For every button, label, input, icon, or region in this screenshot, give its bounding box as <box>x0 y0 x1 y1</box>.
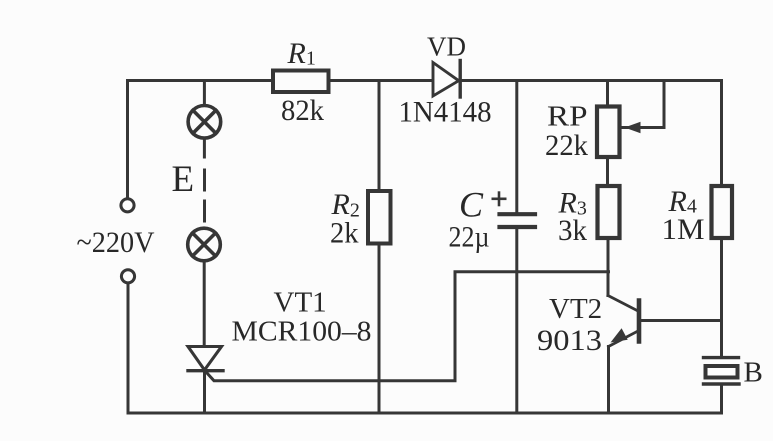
wire left rail upper <box>126 81 129 199</box>
wire RP to R3 <box>606 159 609 185</box>
wire bottom rail <box>128 412 722 415</box>
wire VT1 gate run <box>207 272 609 381</box>
wire C branch top <box>515 81 518 213</box>
svg-text:2k: 2k <box>330 217 359 250</box>
svg-text:~220V: ~220V <box>77 226 155 259</box>
wire RP branch top <box>606 81 609 106</box>
diode VD <box>433 61 460 98</box>
label C polarity plus <box>492 191 507 206</box>
transistor VT2 <box>608 296 639 347</box>
wire below lower lamp <box>203 262 206 345</box>
svg-text:9013: 9013 <box>537 324 602 357</box>
svg-text:82k: 82k <box>281 94 324 127</box>
capacitor C <box>500 214 536 227</box>
wire below upper lamp <box>203 140 206 158</box>
thyristor VT1 <box>188 347 223 371</box>
svg-text:MCR100–8: MCR100–8 <box>232 316 372 348</box>
svg-text:1M: 1M <box>662 213 705 246</box>
resistor R2 <box>368 191 391 244</box>
wire R2 branch bottom <box>378 245 381 414</box>
resistor R4 <box>712 186 733 238</box>
svg-text:C: C <box>459 185 484 225</box>
lamp E (upper) <box>188 106 221 139</box>
svg-text:VT2: VT2 <box>549 293 602 325</box>
wire right rail middle <box>720 240 723 356</box>
wire top rail right segment <box>460 79 722 82</box>
svg-text:E: E <box>172 159 195 200</box>
wire VT1 cathode down <box>203 371 206 414</box>
svg-text:B: B <box>744 357 763 389</box>
potentiometer RP <box>597 107 620 158</box>
wire dashed segment 1 <box>203 170 206 190</box>
svg-text:VT1: VT1 <box>274 287 327 319</box>
wire dashed segment 2 <box>203 201 206 221</box>
svg-text:22µ: 22µ <box>449 221 490 254</box>
svg-text:1N4148: 1N4148 <box>399 96 492 129</box>
wire C branch bottom <box>515 229 518 413</box>
arrowhead RP arm <box>625 122 641 134</box>
wire right rail bottom <box>720 386 723 414</box>
terminal upper <box>121 199 134 212</box>
svg-text:22k: 22k <box>545 129 588 162</box>
wire R2 branch top <box>378 81 381 191</box>
wire VT2 emitter down <box>607 347 610 414</box>
wire top rail left segment <box>128 79 273 82</box>
wire right rail top <box>720 81 723 185</box>
wire RP arm <box>623 81 664 128</box>
svg-text:3k: 3k <box>558 214 587 247</box>
wire top rail middle segment <box>328 79 433 82</box>
lamp E (lower) <box>188 228 221 261</box>
buzzer B <box>704 358 740 384</box>
terminal lower <box>121 270 134 283</box>
resistor R1 <box>273 71 329 93</box>
wire lamp branch top <box>203 81 206 105</box>
resistor R3 <box>598 186 620 238</box>
svg-text:VD: VD <box>427 32 466 62</box>
svg-text:RP: RP <box>547 101 588 133</box>
svg-text:R1: R1 <box>287 37 316 70</box>
wire R3 to collector <box>607 240 610 296</box>
wire left rail lower <box>127 284 130 414</box>
wire VT2 base to right rail <box>641 319 722 322</box>
